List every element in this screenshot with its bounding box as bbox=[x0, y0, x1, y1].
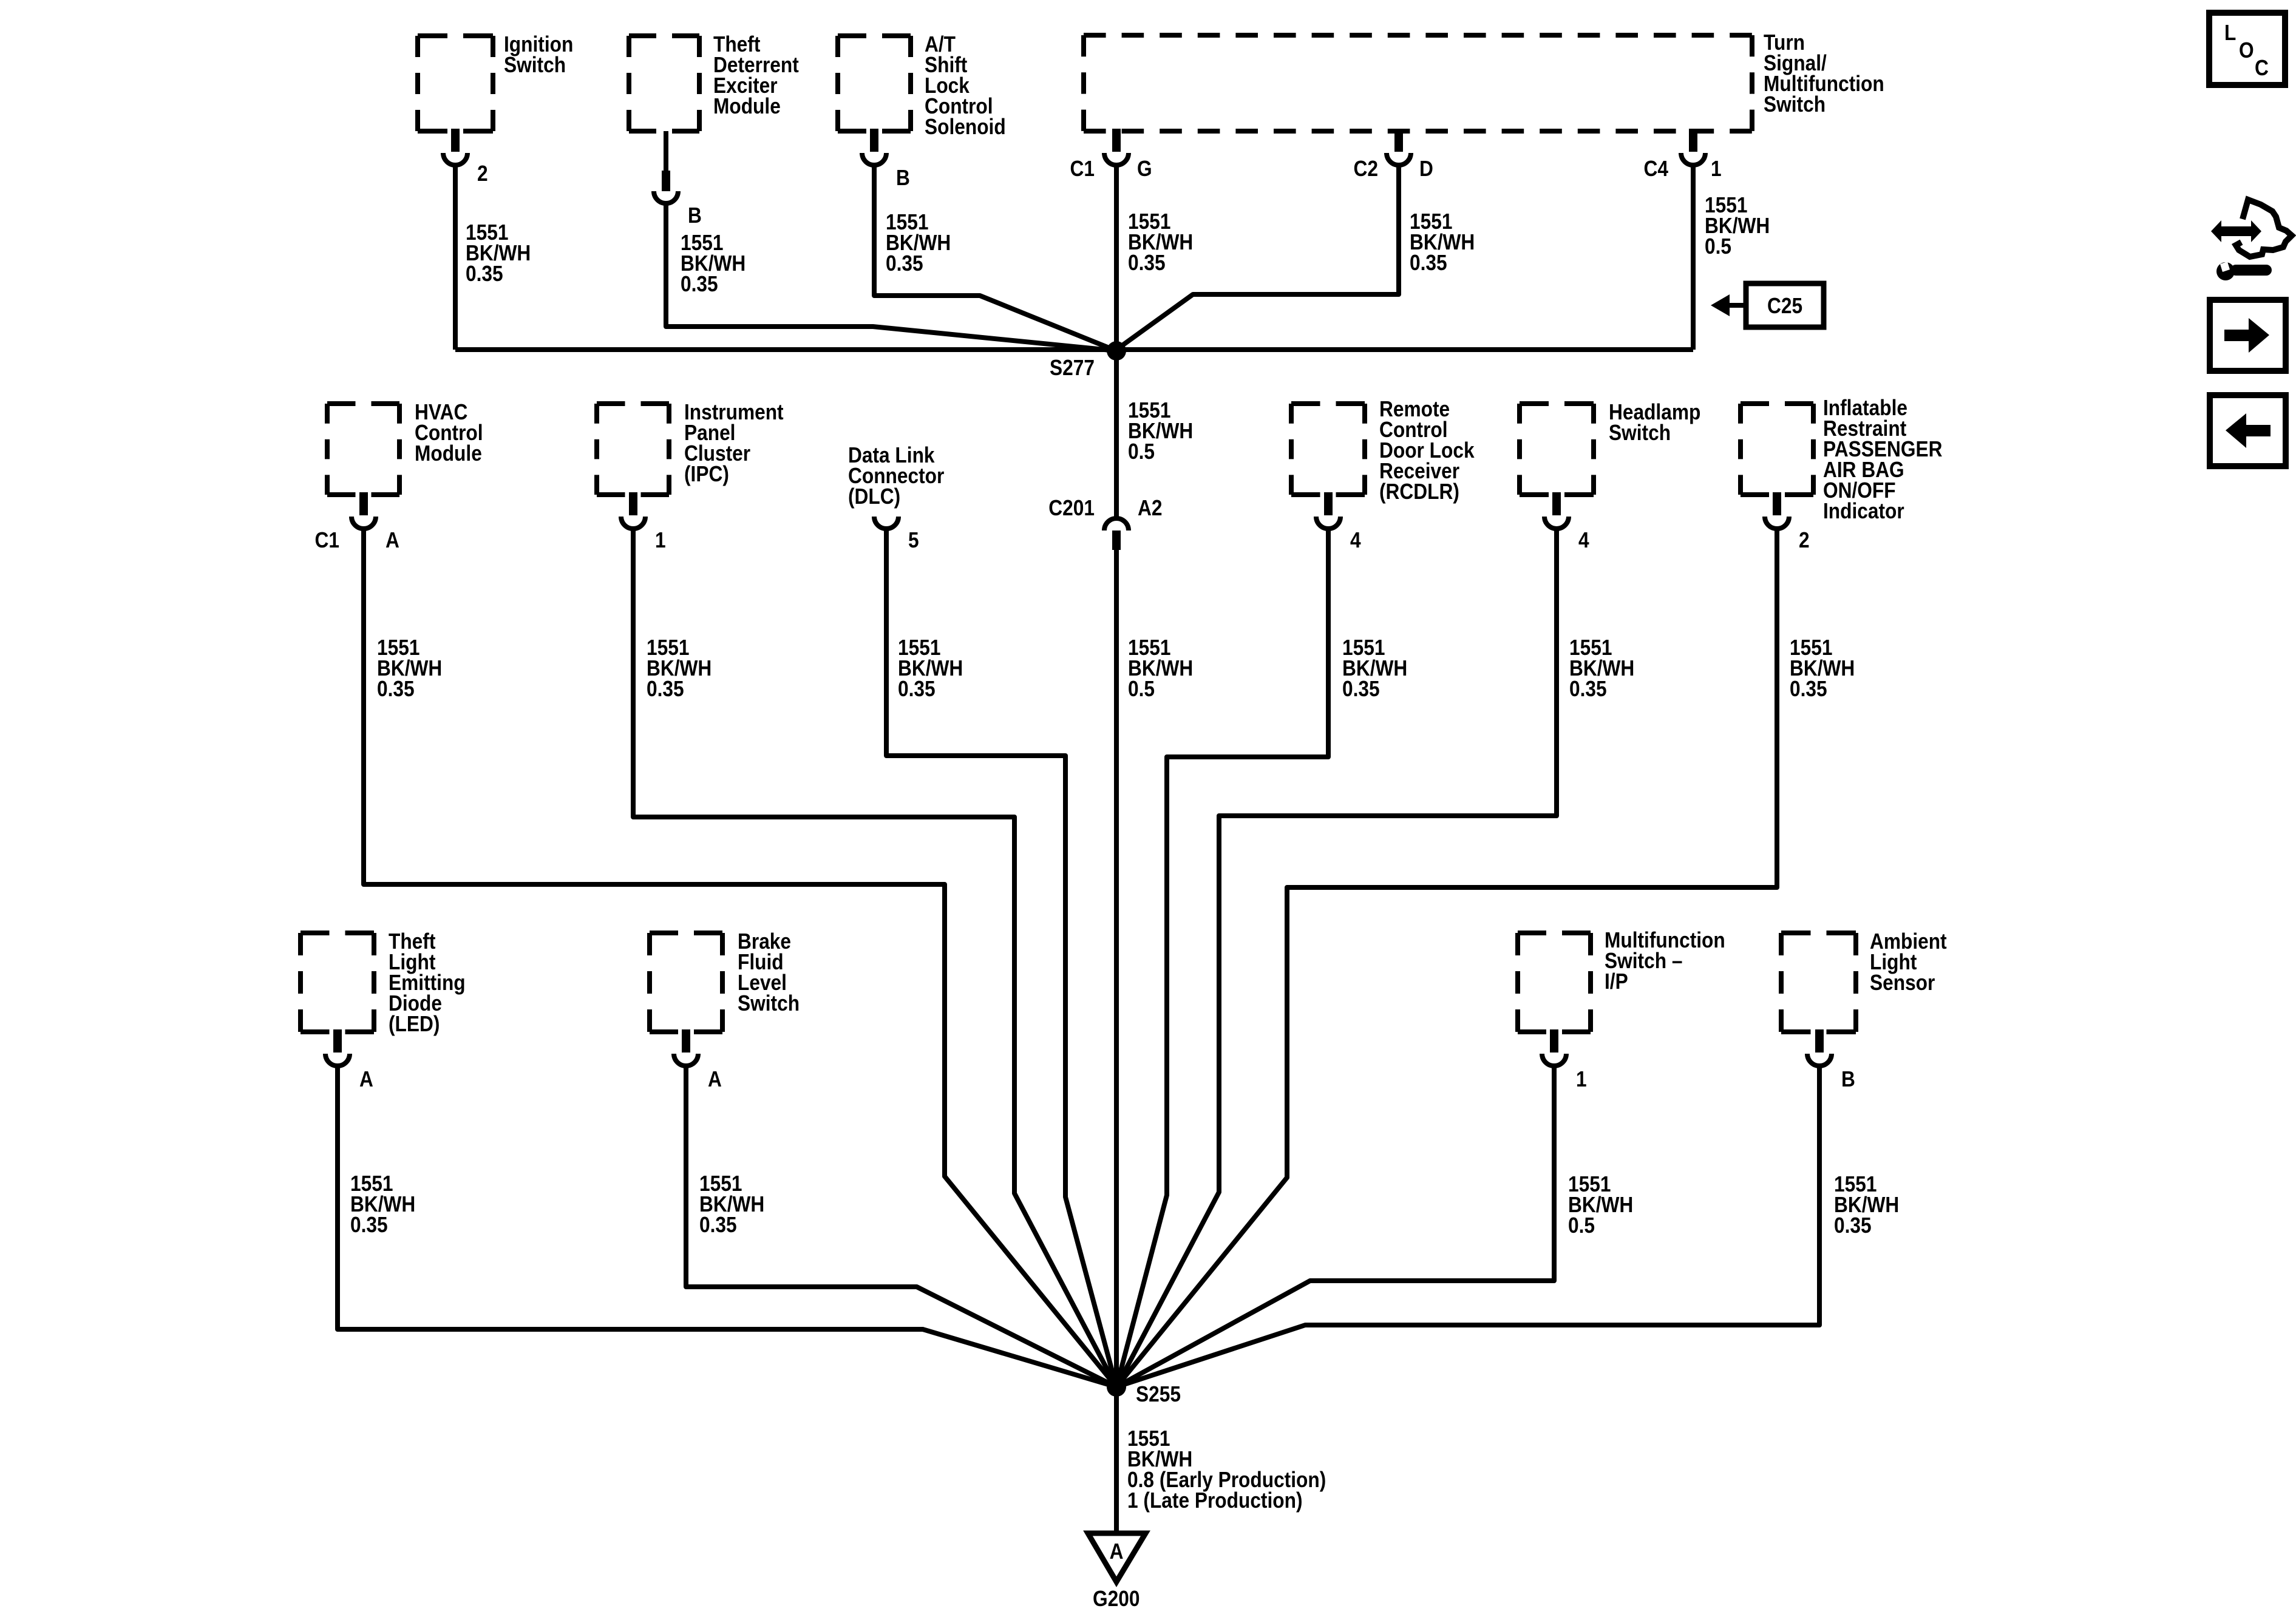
connector box: Brake Fluid Level Switch bbox=[650, 929, 800, 1032]
svg-text:C: C bbox=[2255, 56, 2269, 80]
pin 4 of RCDLR bbox=[1316, 492, 1361, 552]
svg-text:C25: C25 bbox=[1767, 294, 1802, 318]
pin 2 of Passenger Air Bag Indicator bbox=[1765, 492, 1810, 552]
svg-text:2: 2 bbox=[1799, 528, 1810, 552]
splice S255 bbox=[1107, 1377, 1181, 1406]
svg-text:C1: C1 bbox=[315, 528, 339, 552]
pin C4 1 of Turn Signal/Multifunction Switch bbox=[1644, 129, 1722, 181]
svg-text:A: A bbox=[708, 1067, 722, 1091]
wire: C201 down to S255 bbox=[1114, 550, 1119, 1387]
svg-text:L: L bbox=[2224, 21, 2236, 45]
wire: DLC to S255 bbox=[886, 529, 1116, 1387]
svg-text:S277: S277 bbox=[1050, 356, 1095, 380]
connector box: Instrument Panel Cluster (IPC) bbox=[597, 400, 784, 495]
svg-text:B: B bbox=[896, 166, 910, 190]
pin B of A/T Shift Lock Control Solenoid bbox=[862, 129, 910, 190]
svg-text:B: B bbox=[688, 203, 702, 228]
connector box: Inflatable Restraint PASSENGER AIR BAG ON/OFF Indicator bbox=[1741, 396, 1942, 523]
svg-text:5: 5 bbox=[908, 528, 919, 552]
connector box: Theft Deterrent Exciter Module bbox=[629, 32, 799, 131]
svg-text:2: 2 bbox=[477, 161, 488, 186]
splice S277 bbox=[1050, 341, 1126, 380]
connector box: Turn Signal / Multifunction Switch bbox=[1084, 30, 1884, 131]
inline connector pin B of Theft Deterrent Exciter Module bbox=[654, 131, 702, 228]
connector box: Headlamp Switch bbox=[1520, 400, 1700, 495]
wire: Turn Signal pin 1 down to S277 horizontal bbox=[1691, 163, 1696, 350]
wire: HVAC Control Module to S255 bbox=[364, 529, 1116, 1387]
icon: previous-page left arrow box bbox=[2210, 395, 2286, 466]
svg-text:A2: A2 bbox=[1138, 496, 1162, 520]
wire: A/T Shift Lock Control Solenoid to S277 bbox=[874, 163, 1116, 351]
wire: Turn Signal pin G down through S277 to C201 bbox=[1114, 163, 1119, 517]
wire: Brake Fluid Level Switch to S255 bbox=[686, 1066, 1116, 1387]
connector box: Remote Control Door Lock Receiver (RCDLR) bbox=[1291, 397, 1475, 504]
connector box: Theft Light Emitting Diode (LED) bbox=[301, 929, 466, 1036]
svg-text:C201: C201 bbox=[1048, 496, 1095, 520]
wire: S255 to ground G200 bbox=[1114, 1387, 1119, 1533]
svg-text:G: G bbox=[1137, 157, 1152, 181]
pin C2 D of Turn Signal/Multifunction Switch bbox=[1354, 129, 1433, 181]
pin 1 of Multifunction Switch I/P bbox=[1542, 1029, 1587, 1091]
pin B of Ambient Light Sensor bbox=[1807, 1029, 1855, 1091]
svg-text:4: 4 bbox=[1350, 528, 1361, 552]
connector box: Multifunction Switch - I/P bbox=[1518, 928, 1725, 1032]
wire: IPC to S255 bbox=[633, 529, 1116, 1387]
wire: Ambient Light Sensor to S255 bbox=[1116, 1066, 1819, 1387]
wire: Theft Deterrent Exciter Module to S277 bbox=[666, 202, 1116, 351]
svg-text:1: 1 bbox=[1711, 157, 1722, 181]
icon: next-page right arrow box bbox=[2210, 300, 2286, 371]
pin 2 of Ignition Switch bbox=[443, 129, 488, 186]
wire: main S277 horizontal bus bbox=[455, 347, 1693, 352]
connector box: HVAC Control Module bbox=[327, 400, 483, 495]
svg-text:D: D bbox=[1419, 157, 1433, 181]
connector box: Ignition Switch bbox=[418, 32, 573, 131]
pin 4 of Headlamp Switch bbox=[1544, 492, 1589, 552]
wire: Ignition Switch pin 2 down to S277 horizontal bbox=[453, 163, 458, 350]
connector C25 reference box and arrow bbox=[1711, 283, 1824, 327]
pin 1 of Instrument Panel Cluster bbox=[621, 492, 666, 552]
wire: Air Bag Indicator to S255 bbox=[1116, 529, 1777, 1387]
wire: Headlamp Switch to S255 bbox=[1116, 529, 1557, 1387]
wire: RCDLR to S255 bbox=[1116, 529, 1328, 1387]
wire: Theft LED to S255 bbox=[338, 1066, 1116, 1387]
ground G200 triangle A bbox=[1088, 1533, 1146, 1611]
icon: LOC reference box bbox=[2209, 13, 2285, 85]
connector box: Ambient Light Sensor bbox=[1781, 929, 1947, 1032]
pin A of Theft LED bbox=[325, 1029, 373, 1091]
svg-text:C2: C2 bbox=[1354, 157, 1378, 181]
connector box: A/T Shift Lock Control Solenoid bbox=[838, 32, 1006, 139]
connector: Data Link Connector (DLC) bbox=[848, 443, 944, 552]
svg-text:4: 4 bbox=[1578, 528, 1589, 552]
svg-text:G200: G200 bbox=[1093, 1587, 1140, 1611]
svg-text:C4: C4 bbox=[1644, 157, 1669, 181]
svg-text:B: B bbox=[1841, 1067, 1855, 1091]
svg-text:S255: S255 bbox=[1136, 1382, 1181, 1406]
svg-text:C1: C1 bbox=[1070, 157, 1095, 181]
wire: Turn Signal pin D to S277 bbox=[1116, 163, 1399, 350]
pin C1 A of HVAC Control Module bbox=[315, 492, 399, 552]
svg-text:A: A bbox=[359, 1067, 373, 1091]
svg-text:IgnitionSwitch: IgnitionSwitch bbox=[504, 32, 573, 77]
pin C1 G of Turn Signal/Multifunction Switch bbox=[1070, 129, 1152, 181]
svg-text:1: 1 bbox=[655, 528, 666, 552]
svg-text:O: O bbox=[2239, 38, 2254, 63]
wire: Multifunction Switch I/P to S255 bbox=[1116, 1066, 1554, 1387]
svg-text:A: A bbox=[1110, 1539, 1124, 1564]
pin A of Brake Fluid Level Switch bbox=[674, 1029, 722, 1091]
icon: harness repair (double arrow + wrench) bbox=[2211, 200, 2292, 280]
svg-text:1: 1 bbox=[1576, 1067, 1587, 1091]
svg-text:A: A bbox=[385, 528, 399, 552]
inline connector C201 pin A2 bbox=[1048, 496, 1162, 550]
